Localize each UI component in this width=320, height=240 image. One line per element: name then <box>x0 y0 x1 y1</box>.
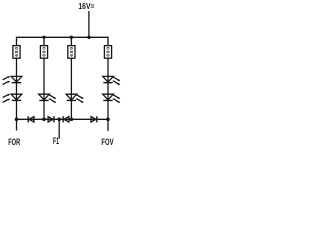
svg-text:FOR: FOR <box>8 137 20 148</box>
wire F1 stub <box>58 119 60 139</box>
resistor R3 <box>68 46 75 59</box>
resistor R4 <box>104 46 111 59</box>
LED D6 col4 lower <box>103 94 121 103</box>
junction dot bus col2 <box>42 36 45 39</box>
junction dot bus supply <box>87 36 90 39</box>
svg-text:680: 680 <box>42 47 48 57</box>
junction dot rail col3 <box>70 118 74 122</box>
wire supply vertical <box>88 11 90 37</box>
wire col2 bus stub <box>43 37 45 45</box>
junction dot rail col2 <box>42 118 46 122</box>
LED D3 col2 <box>39 94 57 103</box>
wire col4 vertical <box>107 58 109 131</box>
resistor R1 <box>13 46 20 59</box>
diode D8 cathode-right col2-F1 <box>48 116 54 122</box>
wire top bus <box>17 37 109 45</box>
LED D4 col3 <box>66 94 84 103</box>
svg-text:FOV: FOV <box>101 137 114 148</box>
wire col3 bus stub <box>70 37 72 45</box>
resistor R2 <box>40 46 47 59</box>
junction dot rail F1-node <box>57 118 61 122</box>
diode D7 cathode-left FOR-col2 <box>28 116 34 122</box>
svg-text:F1: F1 <box>53 136 59 147</box>
svg-text:680: 680 <box>106 47 112 57</box>
wire col2 vertical <box>43 58 45 119</box>
photodiode D2 col1 lower <box>3 94 22 103</box>
LED D5 col4 upper <box>103 76 121 85</box>
wire col3 vertical <box>70 58 72 119</box>
junction dot bus col3 <box>70 36 73 39</box>
junction dot rail col4 <box>106 118 110 122</box>
wire col1 vertical <box>16 58 18 130</box>
svg-text:16V=: 16V= <box>78 1 94 11</box>
photodiode D1 col1 upper <box>3 76 22 85</box>
svg-text:680: 680 <box>14 47 20 57</box>
svg-text:680: 680 <box>69 47 75 57</box>
junction dot rail col1 <box>15 118 19 122</box>
diode D10 cathode-right col3-FOV <box>91 116 97 122</box>
wire bottom rail <box>17 118 109 120</box>
diode D9 cathode-left F1-col3 <box>63 116 69 122</box>
